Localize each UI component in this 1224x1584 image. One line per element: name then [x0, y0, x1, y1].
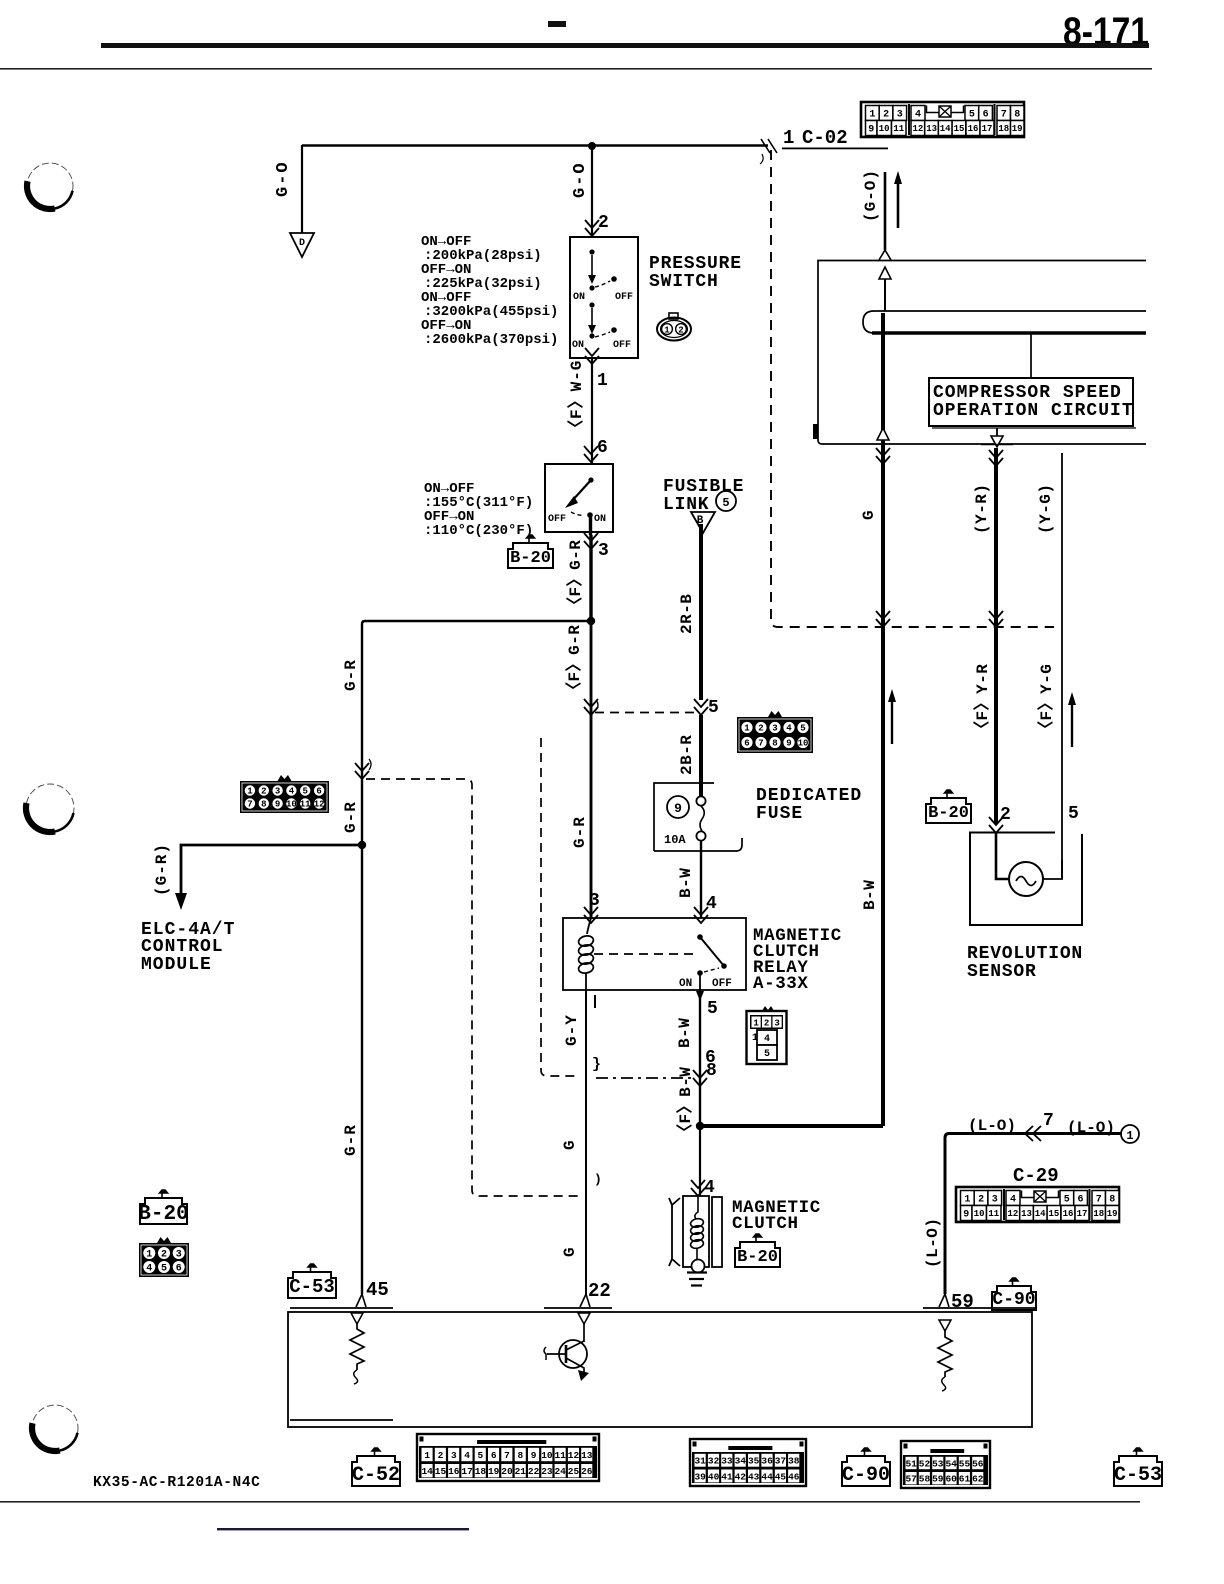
svg-text:9: 9 [531, 1450, 537, 1461]
wire G-Y coil down [585, 990, 587, 1296]
chevron Y-R at dashed [989, 611, 1003, 627]
connector label C-53 top [288, 1264, 336, 1298]
svg-text:3: 3 [451, 1450, 457, 1461]
frame compressor circuit [813, 261, 1146, 445]
connector label C-90 bottom [842, 1448, 890, 1487]
svg-text:OFF: OFF [615, 292, 633, 303]
arrow up beside G-O [894, 171, 902, 228]
footer underline mark [217, 1528, 469, 1530]
svg-text:(L-O): (L-O) [924, 1217, 942, 1268]
svg-text:3: 3 [897, 110, 903, 121]
connector C-29 pinout [956, 1187, 1119, 1222]
svg-text:(Y-R): (Y-R) [973, 483, 991, 534]
landing line 22 [544, 1307, 612, 1309]
circled 5 fusible link number [716, 491, 736, 511]
pressure switch internals [572, 249, 633, 351]
svg-text:37: 37 [775, 1456, 787, 1467]
svg-text:G: G [561, 1247, 579, 1257]
svg-text:5: 5 [800, 724, 805, 734]
svg-text:2: 2 [678, 326, 683, 336]
svg-text:3: 3 [598, 541, 609, 561]
svg-text:3: 3 [176, 1250, 182, 1261]
svg-text:1: 1 [869, 110, 875, 121]
transistor pin 22 [544, 1313, 590, 1381]
svg-text:7: 7 [1001, 110, 1007, 121]
wire to ELC module [181, 845, 362, 894]
svg-text:60: 60 [945, 1474, 957, 1485]
svg-text:MODULE: MODULE [141, 955, 212, 975]
svg-text:51: 51 [905, 1458, 917, 1469]
chevrons left on L-O [1025, 1126, 1041, 1141]
svg-text:8: 8 [706, 1061, 717, 1081]
svg-text:16: 16 [968, 124, 979, 134]
chevron on G-R wire at dashed link [584, 699, 598, 715]
svg-text:ON: ON [572, 340, 584, 351]
svg-text:G-Y: G-Y [563, 1014, 581, 1046]
svg-text:44: 44 [761, 1471, 773, 1482]
svg-text:14: 14 [421, 1466, 433, 1477]
wire G-R thick to junction [589, 535, 592, 621]
chevron riser at dashed [876, 611, 890, 627]
svg-text:36: 36 [761, 1456, 773, 1467]
relay box A-33X [563, 918, 746, 990]
relay coil [578, 918, 595, 990]
svg-text:4: 4 [146, 1264, 152, 1275]
arrow D to diode page [290, 233, 314, 257]
connector label C-53 bottom [1114, 1448, 1162, 1487]
svg-text:OFF: OFF [548, 514, 566, 525]
binder hole crescent middle [26, 784, 74, 832]
svg-text:12: 12 [568, 1450, 580, 1461]
svg-text:G: G [860, 510, 878, 520]
svg-text:C-53: C-53 [1114, 1464, 1162, 1487]
magnetic clutch component [669, 1196, 722, 1273]
svg-text:7: 7 [247, 800, 252, 810]
label REVOLUTION SENSOR [967, 944, 1083, 982]
svg-text:8: 8 [1014, 110, 1020, 121]
svg-text:12: 12 [912, 124, 923, 134]
svg-text:42: 42 [735, 1471, 747, 1482]
hollow arrow down from compressor box [981, 428, 1013, 447]
svg-text:〈F〉Y-R: 〈F〉Y-R [973, 664, 992, 737]
svg-text:6: 6 [491, 1450, 497, 1461]
wire B-W fuse to relay [700, 840, 702, 918]
wire top bus G-O [302, 144, 768, 146]
svg-text:26: 26 [581, 1466, 593, 1477]
svg-text:21: 21 [515, 1466, 527, 1477]
svg-text:2: 2 [978, 1195, 984, 1206]
svg-text:1: 1 [664, 326, 670, 336]
pressure switch box [570, 237, 638, 358]
control module bottom box [288, 1312, 1032, 1427]
junction node G-R [587, 617, 595, 625]
svg-text:1: 1 [424, 1450, 430, 1461]
svg-text:19: 19 [1107, 1209, 1118, 1219]
svg-text:G-O: G-O [571, 161, 590, 198]
svg-text:ON: ON [573, 292, 585, 303]
connector C-02 pinout [861, 102, 1024, 137]
svg-text:B-20: B-20 [737, 1248, 778, 1267]
svg-text:2R-B: 2R-B [678, 594, 696, 634]
svg-text:2: 2 [438, 1450, 444, 1461]
svg-text:16: 16 [448, 1466, 460, 1477]
svg-text:B-20: B-20 [138, 1203, 188, 1226]
svg-text:40: 40 [708, 1471, 720, 1482]
svg-text:2: 2 [1000, 805, 1011, 825]
svg-text:CLUTCH: CLUTCH [732, 1214, 799, 1234]
hollow arrow up inside frame [879, 267, 891, 311]
svg-text:14: 14 [1035, 1209, 1046, 1219]
chevron Y-R top [989, 450, 1003, 466]
svg-text:23: 23 [541, 1466, 553, 1477]
chevron riser below frame [876, 448, 890, 464]
ground B-20 box left [138, 1190, 188, 1226]
label DEDICATED FUSE [756, 786, 862, 824]
svg-text:25: 25 [568, 1466, 580, 1477]
svg-text:17: 17 [982, 124, 993, 134]
svg-text:B: B [697, 515, 704, 527]
label PRESSURE SWITCH [649, 254, 742, 292]
svg-text:4: 4 [915, 110, 921, 121]
svg-text:7: 7 [1043, 1111, 1054, 1131]
svg-text:1: 1 [964, 1195, 970, 1206]
node 1 C-02 label [782, 127, 888, 149]
landing line 45 [290, 1307, 393, 1309]
connector C-52 pinout [417, 1434, 599, 1481]
svg-text:1: 1 [744, 724, 750, 734]
connector C-90 pinout [901, 1441, 990, 1488]
thermo spec text [424, 481, 533, 539]
svg-text:5: 5 [969, 110, 975, 121]
svg-text:8: 8 [1109, 1195, 1115, 1206]
relay switch [679, 934, 732, 1001]
connector 10-pin fuse [737, 711, 813, 753]
svg-text:1: 1 [1126, 1129, 1133, 1143]
svg-text:32: 32 [708, 1456, 720, 1467]
wire G-R mid [590, 621, 593, 918]
svg-text:C-52: C-52 [352, 1464, 400, 1487]
chevron exit pressure switch [585, 348, 599, 364]
svg-text:5: 5 [764, 1049, 770, 1060]
wire branch to left [362, 621, 591, 845]
svg-text:14: 14 [940, 124, 951, 134]
svg-text:13: 13 [581, 1450, 593, 1461]
svg-text:61: 61 [959, 1474, 971, 1485]
svg-text:59: 59 [951, 1291, 974, 1313]
svg-text:5: 5 [478, 1450, 484, 1461]
label MAGNETIC CLUTCH RELAY A-33X [753, 926, 842, 994]
dashed link line pin5 [595, 712, 697, 714]
svg-text:PRESSURE: PRESSURE [649, 254, 742, 274]
svg-text:KX35-AC-R1201A-N4C: KX35-AC-R1201A-N4C [93, 1475, 260, 1491]
wire W-G [591, 358, 593, 464]
svg-text:(Y-G): (Y-G) [1037, 483, 1055, 534]
svg-text:〈F〉Y-G: 〈F〉Y-G [1037, 664, 1056, 737]
fuse element [696, 796, 705, 840]
svg-text:1: 1 [783, 127, 794, 149]
chevron into pressure switch [585, 220, 599, 236]
resistor pin 45 [350, 1313, 364, 1384]
svg-text:15: 15 [1048, 1209, 1059, 1219]
svg-text:3: 3 [774, 1019, 779, 1029]
svg-text:45: 45 [775, 1471, 787, 1482]
svg-text:59: 59 [932, 1474, 944, 1485]
svg-text:6: 6 [597, 438, 608, 458]
connector 5-pin relay [747, 1006, 787, 1064]
connector label C-52 bottom [352, 1448, 400, 1487]
svg-text:5: 5 [722, 496, 729, 510]
binder hole crescent bottom [32, 1405, 78, 1451]
svg-text::2600kPa(370psi): :2600kPa(370psi) [424, 332, 558, 348]
svg-text:COMPRESSOR SPEED: COMPRESSOR SPEED [933, 383, 1122, 403]
svg-text:D: D [299, 238, 305, 249]
svg-text:17: 17 [1077, 1209, 1088, 1219]
svg-text:31: 31 [694, 1456, 706, 1467]
binder hole crescent top [27, 163, 73, 209]
svg-text:1: 1 [752, 1033, 758, 1044]
svg-text:15: 15 [435, 1466, 447, 1477]
dedicated fuse box [654, 783, 742, 851]
AC source symbol [1009, 862, 1043, 896]
svg-text:10: 10 [286, 800, 297, 810]
thick riser wire [881, 313, 885, 1126]
wire to magnetic clutch [699, 1126, 701, 1196]
svg-text:9: 9 [963, 1210, 969, 1221]
svg-text:2: 2 [764, 1019, 769, 1029]
label MAGNETIC CLUTCH [732, 1198, 821, 1234]
svg-text:54: 54 [945, 1458, 957, 1469]
svg-text:1: 1 [753, 1019, 759, 1029]
svg-text:11: 11 [554, 1450, 566, 1461]
svg-text:57: 57 [905, 1474, 917, 1485]
svg-text:B-20: B-20 [928, 804, 969, 823]
svg-text:C-53: C-53 [289, 1276, 335, 1298]
wire G-O left drop [301, 145, 303, 233]
svg-text:22: 22 [528, 1466, 540, 1477]
svg-text:7: 7 [1096, 1195, 1102, 1206]
svg-text:11: 11 [300, 800, 311, 810]
svg-text:4: 4 [464, 1450, 470, 1461]
ground B-20 box clutch [735, 1234, 780, 1267]
circled 1 L-O source [1121, 1125, 1139, 1143]
svg-text:}: } [592, 1056, 601, 1073]
chevron into thermo switch [584, 446, 598, 462]
svg-text:4: 4 [706, 894, 717, 914]
Y split pin 22 [580, 1294, 590, 1307]
wire 2B-R [699, 715, 703, 797]
chevron into sensor [989, 817, 1003, 833]
svg-text:24: 24 [554, 1466, 566, 1477]
chevron into clutch [691, 1180, 705, 1196]
connector label C-90 at 59 [992, 1278, 1036, 1310]
svg-text:10: 10 [798, 739, 809, 749]
svg-text:6: 6 [983, 110, 989, 121]
svg-text:B-W: B-W [676, 1018, 694, 1048]
ground B-20 box sensor [926, 790, 971, 823]
svg-text:FUSE: FUSE [756, 804, 803, 824]
svg-text:13: 13 [926, 124, 937, 134]
circled 9 fuse number [667, 796, 689, 818]
junction dot B-W [696, 1122, 704, 1130]
svg-text:58: 58 [919, 1474, 931, 1485]
svg-text:38: 38 [788, 1456, 800, 1467]
svg-text:5: 5 [302, 787, 307, 797]
svg-text:6: 6 [316, 787, 321, 797]
svg-text:18: 18 [998, 124, 1009, 134]
svg-text:15: 15 [954, 124, 965, 134]
label ELC-4A/T CONTROL MODULE [141, 920, 235, 975]
svg-text:11: 11 [988, 1209, 999, 1219]
svg-text:18: 18 [475, 1466, 487, 1477]
svg-text:19: 19 [1012, 124, 1023, 134]
svg-text:): ) [594, 1172, 602, 1187]
svg-text:10A: 10A [664, 833, 686, 847]
svg-text:G-R: G-R [571, 816, 589, 848]
header thin rule [0, 68, 1152, 70]
svg-text:(L-O): (L-O) [968, 1117, 1016, 1135]
resistor pin 59 [938, 1320, 952, 1391]
svg-text:C-29: C-29 [1013, 1165, 1059, 1187]
svg-text:B-W: B-W [861, 880, 879, 910]
hollow arrow up at frame bottom [877, 428, 889, 440]
junction dot ELC branch [358, 841, 366, 849]
svg-text:55: 55 [959, 1458, 971, 1469]
svg-text:C-90: C-90 [992, 1290, 1035, 1310]
svg-text:G-R: G-R [342, 659, 360, 691]
svg-text::110°C(230°F): :110°C(230°F) [424, 523, 533, 539]
svg-text:OPERATION CIRCUIT: OPERATION CIRCUIT [933, 401, 1134, 421]
Y split into frame [879, 250, 891, 260]
svg-text:〈F〉G-R: 〈F〉G-R [565, 625, 584, 698]
stray curl G-R wire [596, 700, 598, 710]
svg-text:4: 4 [1010, 1195, 1016, 1206]
svg-text:〈F〉G-R: 〈F〉G-R [566, 540, 585, 613]
svg-text:62: 62 [972, 1474, 984, 1485]
svg-text:〈F〉W-G: 〈F〉W-G [567, 360, 586, 436]
svg-text:2: 2 [261, 787, 266, 797]
svg-text:8: 8 [261, 800, 266, 810]
svg-text:B-W: B-W [677, 868, 695, 898]
wire Y-R thick [994, 448, 998, 824]
svg-text:43: 43 [748, 1471, 760, 1482]
svg-text:〈F〉B-W: 〈F〉B-W [676, 1067, 695, 1140]
svg-text:5: 5 [161, 1264, 167, 1275]
header thick rule [101, 43, 1149, 48]
wire Y-G thin [1061, 453, 1063, 879]
svg-text:SENSOR: SENSOR [967, 962, 1037, 982]
wire B-W junction to right riser [700, 1124, 883, 1128]
svg-text:3: 3 [275, 787, 280, 797]
svg-text:5: 5 [707, 999, 718, 1019]
svg-text:17: 17 [461, 1466, 473, 1477]
svg-text:2: 2 [161, 1250, 167, 1261]
revolution sensor box [970, 833, 1082, 926]
svg-text:12: 12 [1007, 1209, 1018, 1219]
svg-text:53: 53 [932, 1458, 944, 1469]
svg-text:2: 2 [883, 110, 889, 121]
dashed branch line A [366, 779, 578, 1196]
svg-text:G: G [561, 1140, 579, 1150]
svg-text:4: 4 [786, 724, 792, 734]
thermo switch internals [548, 477, 606, 535]
pin 1 partial mark [594, 995, 596, 1008]
svg-text:11: 11 [893, 124, 904, 134]
svg-text:10: 10 [879, 124, 890, 134]
svg-text:10: 10 [974, 1209, 985, 1219]
svg-text:1: 1 [146, 1250, 152, 1261]
svg-text:ON: ON [594, 514, 606, 525]
svg-text:2: 2 [598, 213, 609, 233]
svg-text:C-90: C-90 [842, 1464, 890, 1487]
ground clutch [687, 1273, 707, 1286]
svg-text:G-R: G-R [342, 801, 360, 833]
svg-text:52: 52 [919, 1458, 931, 1469]
svg-text:12: 12 [314, 800, 325, 810]
arrow up beside Y-G [1068, 692, 1076, 747]
fusible link symbol [691, 512, 715, 700]
ground symbol B-20 box thermo [508, 535, 553, 568]
COMPRESSOR SPEED OPERATION CIRCUIT box [929, 378, 1136, 428]
svg-text:22: 22 [588, 1280, 611, 1302]
connector 12-pin ELC [240, 775, 329, 813]
svg-text:16: 16 [1063, 1209, 1074, 1219]
svg-text:C-02: C-02 [802, 127, 848, 149]
svg-text:2: 2 [758, 724, 763, 734]
svg-text:10: 10 [541, 1450, 553, 1461]
svg-text:(G-O): (G-O) [862, 169, 880, 222]
dashed line from C-02 down [771, 150, 1054, 627]
chevron into relay switch [694, 907, 708, 923]
sensor internal wiring [996, 832, 1009, 879]
svg-text:5: 5 [1068, 804, 1079, 824]
junction dot top bus [588, 142, 596, 150]
svg-text:DEDICATED: DEDICATED [756, 786, 862, 806]
svg-text:CONTROL: CONTROL [141, 937, 224, 957]
chevron exit thermo [584, 533, 598, 549]
chevron on left G-R wire [355, 763, 369, 779]
svg-text:41: 41 [721, 1471, 733, 1482]
svg-text:8: 8 [517, 1450, 523, 1461]
pressure switch spec text [421, 234, 558, 348]
svg-text:4: 4 [704, 1178, 715, 1198]
Y split pin 59 [939, 1294, 949, 1307]
svg-text:2B-R: 2B-R [678, 735, 696, 775]
svg-text:7: 7 [504, 1450, 510, 1461]
svg-text:OFF: OFF [712, 978, 732, 990]
svg-text:1: 1 [247, 787, 253, 797]
svg-text:A-33X: A-33X [753, 974, 809, 994]
svg-text:46: 46 [788, 1471, 800, 1482]
svg-text:ON: ON [679, 978, 692, 990]
svg-text:45: 45 [366, 1279, 389, 1301]
svg-text:OFF: OFF [613, 340, 631, 351]
stray curl left wire [369, 759, 371, 770]
svg-text:5: 5 [708, 698, 719, 718]
svg-text:9: 9 [275, 800, 280, 810]
dashed enclosure line B [541, 738, 578, 1076]
wire B-W relay down [699, 996, 701, 1126]
compressor box drop line [1030, 333, 1032, 378]
connector oval 1-2 pressure switch [657, 313, 691, 341]
svg-text:REVOLUTION: REVOLUTION [967, 944, 1083, 964]
svg-text:3: 3 [992, 1195, 998, 1206]
svg-text:6: 6 [1077, 1195, 1083, 1206]
svg-text:20: 20 [501, 1466, 513, 1477]
svg-text:G-R: G-R [342, 1124, 360, 1156]
svg-text:3: 3 [772, 724, 777, 734]
svg-text:8: 8 [772, 739, 777, 749]
arrow up beside riser [888, 689, 896, 744]
